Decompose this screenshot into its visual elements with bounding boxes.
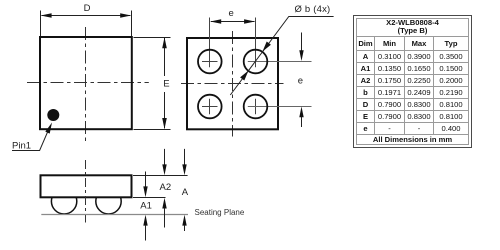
dimension e (top) arrow right bbox=[244, 19, 255, 24]
dimension table bbox=[353, 15, 472, 148]
dimension A1 line upper bbox=[145, 172, 147, 188]
svg-text:e: e bbox=[229, 8, 234, 19]
ball BL cross horizontal bbox=[202, 106, 218, 108]
dimension D arrow left bbox=[41, 13, 52, 18]
svg-text:Seating Plane: Seating Plane bbox=[195, 208, 245, 217]
dimension A line upper bbox=[184, 149, 186, 165]
dimension E extension line top bbox=[134, 37, 171, 39]
dimension E arrow bottom bbox=[162, 118, 167, 129]
dimension e (right) line upper bbox=[301, 33, 303, 51]
package body outline (top view) bbox=[40, 37, 132, 129]
dimension e (right) arrow lower (up) bbox=[299, 107, 303, 118]
dimension A line lower bbox=[184, 225, 186, 231]
centerline horizontal (top view) bbox=[27, 82, 149, 84]
dimension E line lower bbox=[164, 92, 166, 128]
dimension D extension line right bbox=[131, 11, 133, 37]
svg-text:A: A bbox=[182, 187, 189, 198]
centerline horizontal (bottom view) bbox=[181, 83, 284, 85]
svg-text:A2: A2 bbox=[160, 182, 172, 193]
dimension A2 line upper bbox=[164, 149, 166, 165]
package body (side view) bbox=[41, 175, 132, 197]
ball TR cross/extension horizontal bbox=[248, 61, 312, 63]
dimension e (right) arrow upper (down) bbox=[299, 50, 303, 61]
ball TL circle bbox=[198, 50, 222, 74]
svg-text:Ø b (4x): Ø b (4x) bbox=[295, 4, 331, 15]
svg-text:e: e bbox=[298, 76, 303, 87]
dimension e (top) arrow left bbox=[210, 19, 221, 24]
dimension E line upper bbox=[164, 38, 166, 76]
dimension D arrow right bbox=[120, 13, 131, 18]
svg-text:D: D bbox=[84, 3, 91, 14]
dimension A arrow upper (down) bbox=[182, 164, 186, 175]
diameter b leader line bbox=[230, 17, 333, 96]
pin 1 index dot bbox=[47, 109, 59, 121]
dimension E arrow top bbox=[162, 37, 167, 48]
dimension A2 arrow lower (up) bbox=[162, 198, 166, 209]
dimension D line bbox=[42, 15, 131, 17]
ball TL cross horizontal bbox=[202, 61, 218, 63]
dimension A1 arrow lower (up) bbox=[143, 215, 147, 226]
centerline vertical (bottom view) bbox=[232, 31, 234, 137]
solder ball left (side view) bbox=[51, 189, 76, 214]
pin1 leader line bbox=[12, 131, 48, 151]
diameter b arrow lower (pointing to ball) bbox=[240, 71, 248, 81]
ball TR circle bbox=[244, 50, 268, 74]
ball TR extension/cross vertical bbox=[255, 18, 257, 68]
ball BR cross vertical bbox=[255, 99, 257, 114]
pin1 leader arrow bbox=[45, 123, 52, 134]
package outline (bottom view) bbox=[187, 38, 278, 129]
centerline vertical (side view) bbox=[85, 160, 87, 223]
dimension e (right) line lower bbox=[301, 117, 303, 127]
dimension A2 line lower bbox=[164, 208, 166, 228]
body top extension line bbox=[133, 175, 188, 177]
seating plane line bbox=[41, 214, 188, 216]
dimension A arrow lower (up) bbox=[182, 215, 186, 226]
dimension D extension line left bbox=[40, 11, 42, 37]
svg-text:A1: A1 bbox=[140, 201, 152, 212]
solder ball right (side view) bbox=[96, 189, 121, 214]
dimension e (top) line bbox=[211, 21, 255, 23]
svg-text:E: E bbox=[163, 79, 169, 90]
ball BR cross/extension horizontal bbox=[248, 106, 312, 108]
centerline vertical (top view) bbox=[85, 27, 87, 142]
ball BR circle bbox=[244, 95, 268, 119]
svg-text:Pin1: Pin1 bbox=[12, 140, 31, 151]
body bottom extension line bbox=[133, 197, 166, 199]
dimension A1 arrow upper (down) bbox=[143, 186, 147, 197]
dimension E extension line bottom bbox=[134, 129, 171, 131]
diameter b arrow upper (pointing to ball) bbox=[263, 42, 271, 52]
ball BL cross vertical bbox=[209, 99, 211, 114]
ball BL circle bbox=[198, 95, 222, 119]
dimension A1 line lower bbox=[145, 225, 147, 241]
ball TL extension/cross vertical bbox=[209, 18, 211, 68]
dimension A2 arrow upper (down) bbox=[162, 164, 166, 175]
